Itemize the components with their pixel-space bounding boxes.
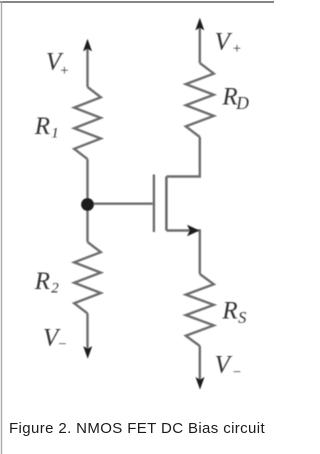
svg-text:S: S [238,308,246,327]
svg-text:R: R [221,298,237,325]
svg-text:2: 2 [51,281,59,297]
svg-text:−: − [57,336,67,352]
svg-text:V: V [215,28,233,55]
svg-text:+: + [59,63,69,79]
svg-text:1: 1 [51,126,59,142]
svg-text:V: V [215,351,233,378]
svg-text:R: R [221,83,237,110]
svg-text:+: + [232,41,242,57]
svg-text:D: D [235,93,249,113]
svg-text:−: − [232,364,242,380]
svg-text:R: R [34,113,50,140]
svg-text:R: R [34,268,50,295]
